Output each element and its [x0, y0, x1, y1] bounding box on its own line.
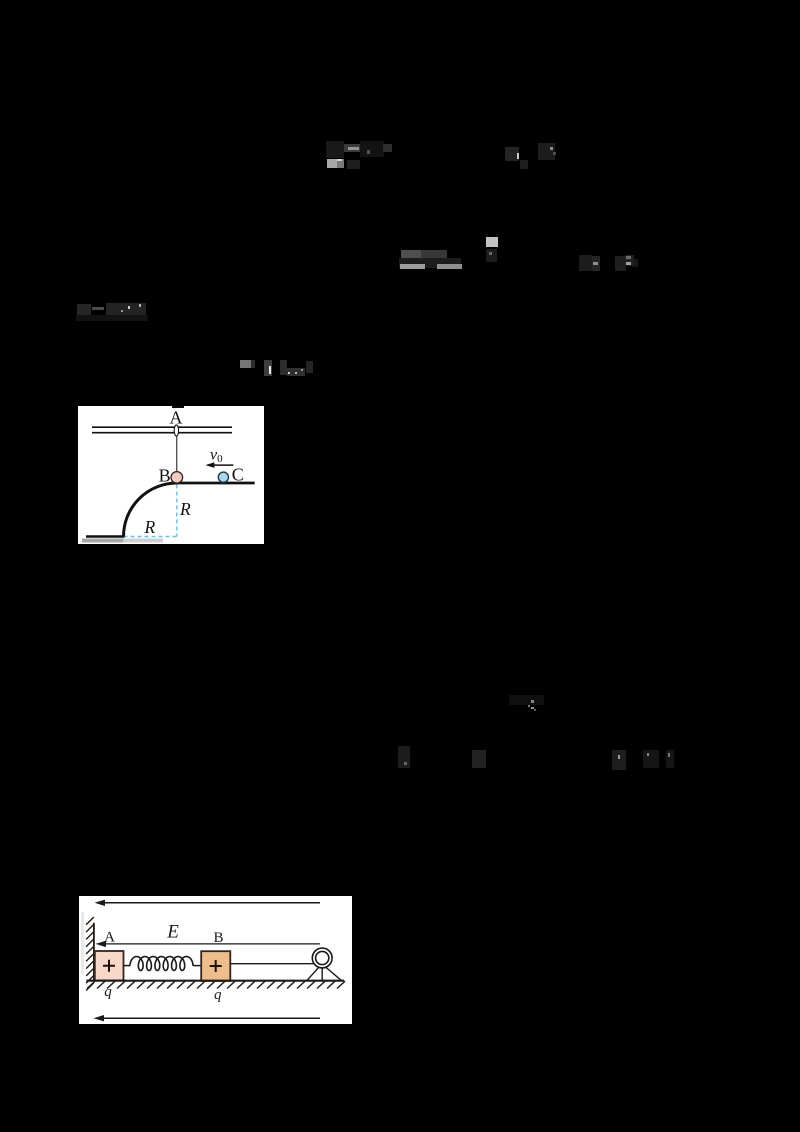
faint formula remnant F5: [579, 255, 592, 271]
faint formula remnant F4 bright block: [486, 237, 498, 247]
ball C: [218, 472, 228, 482]
ramp quarter arc: [124, 483, 178, 537]
dashed radius horizontal: [124, 536, 177, 538]
spring coils: [130, 957, 193, 971]
lower ground line: [86, 535, 125, 538]
faint formula remnant F3: [401, 250, 421, 258]
ground line: [86, 980, 344, 982]
svg-text:B: B: [159, 466, 171, 486]
figure 1: ball on ramp with string: [78, 406, 264, 544]
faint formula remnant F6: [77, 304, 91, 316]
gray strip dark: [82, 539, 123, 543]
gray strip light: [123, 539, 163, 543]
svg-text:C: C: [232, 464, 244, 484]
wall hatches: [86, 917, 94, 991]
svg-text:q: q: [104, 984, 112, 1000]
faint formula remnant F8: [509, 695, 544, 705]
pulley outer ring: [312, 948, 332, 968]
block B: [201, 951, 230, 981]
E field arrow: [104, 943, 320, 945]
ball B: [171, 472, 183, 484]
faint formula remnant F1: [326, 141, 344, 158]
svg-text:q: q: [214, 987, 222, 1003]
svg-text:B: B: [213, 930, 223, 946]
pulley legs: [307, 967, 341, 980]
rope to pulley: [230, 963, 317, 965]
white background: [78, 406, 264, 544]
white background: [79, 896, 352, 1024]
ceiling line lower: [92, 432, 232, 434]
ground hatches: [87, 981, 345, 988]
block A: [95, 951, 124, 981]
svg-text:E: E: [166, 922, 179, 943]
dashed radius vertical: [176, 485, 178, 537]
top edge notch: [172, 406, 184, 408]
string: [176, 436, 178, 471]
v0 arrow: [209, 464, 233, 466]
spring connector right: [193, 965, 201, 967]
figure 2: charged blocks with spring and pulley: [79, 896, 352, 1024]
top surface line: [177, 482, 255, 485]
svg-text:R: R: [144, 517, 156, 537]
hook ring at A: [174, 425, 178, 436]
plus in block A: [103, 960, 115, 972]
faint formula remnant F7: [240, 360, 251, 368]
spring connector left: [124, 965, 131, 967]
faint strip left of wall: [81, 912, 84, 974]
ceiling line upper: [92, 426, 232, 428]
pulley inner ring: [316, 951, 329, 964]
plus in block B: [210, 960, 222, 972]
top long arrow: [103, 902, 320, 904]
faint formula remnant F2: [505, 147, 519, 161]
svg-text:R: R: [179, 499, 191, 519]
wall line: [93, 923, 95, 981]
bottom long arrow: [102, 1017, 320, 1019]
faint formula remnant F9: [398, 746, 410, 768]
